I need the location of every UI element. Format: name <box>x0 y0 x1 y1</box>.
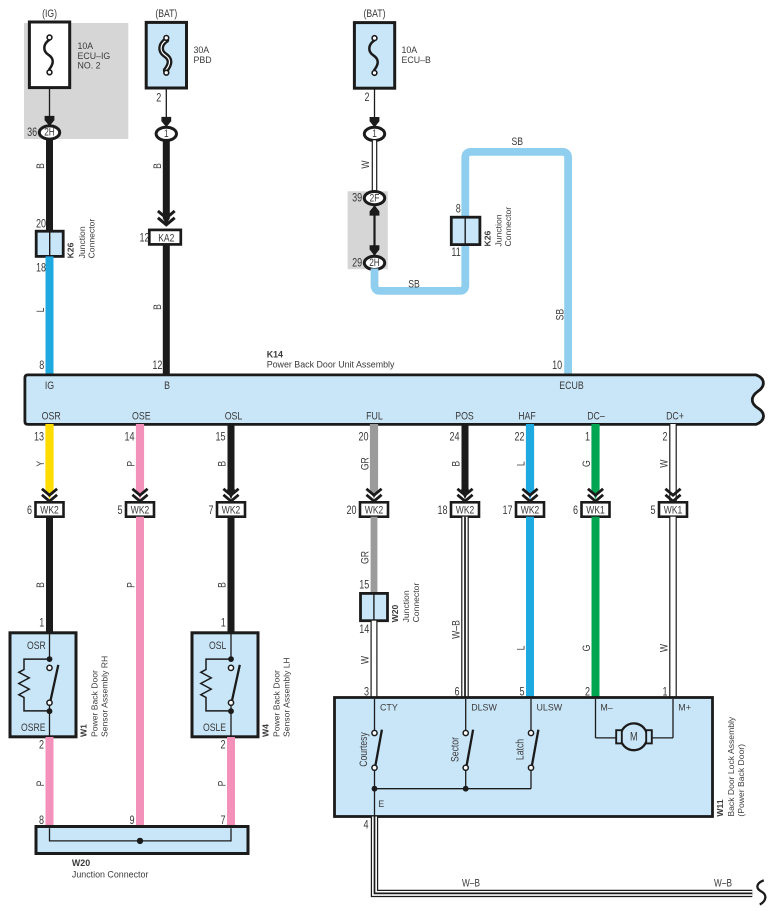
svg-text:W: W <box>659 459 671 468</box>
arrows into WK2 <box>132 489 147 501</box>
wire P <box>136 424 144 490</box>
svg-text:L: L <box>516 461 528 466</box>
svg-text:36: 36 <box>27 127 37 139</box>
svg-text:B: B <box>217 582 229 588</box>
svg-text:W: W <box>360 160 372 169</box>
svg-text:Junction Connector: Junction Connector <box>72 869 149 879</box>
connector WK2 <box>451 502 479 517</box>
label K14 <box>267 349 395 369</box>
svg-text:G: G <box>581 645 593 652</box>
svg-text:W–B: W–B <box>714 878 732 890</box>
svg-text:29: 29 <box>352 257 362 269</box>
svg-text:Connector: Connector <box>87 219 97 259</box>
connector KA2 <box>149 230 181 245</box>
svg-text:NO. 2: NO. 2 <box>78 61 101 71</box>
svg-text:22: 22 <box>514 431 524 443</box>
svg-text:Connector: Connector <box>503 207 513 247</box>
connector WK2 <box>36 502 64 517</box>
svg-text:P: P <box>217 780 229 786</box>
wire L (K26 to K14 IG) <box>46 256 54 374</box>
svg-text:B: B <box>152 304 164 310</box>
connector WK2 <box>516 502 544 517</box>
svg-text:DLSW: DLSW <box>471 702 497 712</box>
svg-text:WK2: WK2 <box>40 505 58 517</box>
svg-text:KA2: KA2 <box>158 233 174 245</box>
label W11 Back Door Lock Assembly <box>715 716 746 817</box>
svg-text:B: B <box>35 582 47 588</box>
svg-text:1: 1 <box>164 128 169 140</box>
svg-text:8: 8 <box>456 203 461 215</box>
arrows into WK1 <box>665 489 680 501</box>
fuse 10A ECU-IG NO. 2 <box>29 22 69 88</box>
svg-text:(IG): (IG) <box>42 8 57 20</box>
svg-text:Junction: Junction <box>494 214 504 246</box>
svg-text:P: P <box>126 460 138 466</box>
svg-text:G: G <box>581 460 593 467</box>
svg-text:12: 12 <box>139 233 149 245</box>
svg-text:ECU–IG: ECU–IG <box>78 51 111 61</box>
svg-text:DC–: DC– <box>587 410 605 422</box>
svg-text:W1: W1 <box>78 724 88 737</box>
svg-text:5: 5 <box>117 505 122 517</box>
svg-text:1: 1 <box>372 128 377 140</box>
wire W (WK1 col) <box>669 424 677 502</box>
svg-text:K14: K14 <box>267 349 283 359</box>
svg-text:FUL: FUL <box>366 410 383 422</box>
connector WK1 <box>659 502 687 517</box>
svg-text:18: 18 <box>437 505 447 517</box>
arrows into WK2 <box>42 489 57 501</box>
svg-text:OSE: OSE <box>132 410 151 422</box>
label K26 Junction Connector <box>66 219 97 259</box>
svg-text:ECU–B: ECU–B <box>402 55 431 65</box>
wire Y <box>45 424 53 490</box>
junction connector K26 (2) <box>451 217 480 244</box>
svg-text:6: 6 <box>27 505 32 517</box>
ground bus wire in W11 <box>372 786 531 817</box>
label K26 Junction Connector <box>482 207 513 247</box>
connector 2H <box>364 256 384 269</box>
svg-text:(BAT): (BAT) <box>364 8 386 20</box>
shaded block (IG) fuse area <box>24 23 128 139</box>
svg-text:Courtesy: Courtesy <box>358 732 370 767</box>
svg-text:(BAT): (BAT) <box>155 8 177 20</box>
break mark (continuation squiggle) <box>757 880 765 904</box>
wire fuse to connector 2H <box>49 88 51 118</box>
svg-text:K26: K26 <box>66 242 76 258</box>
svg-text:15: 15 <box>215 431 225 443</box>
arrows into WK2 <box>522 489 537 501</box>
svg-text:OSRE: OSRE <box>21 722 46 734</box>
motor M <box>596 699 674 750</box>
svg-text:ULSW: ULSW <box>537 702 563 712</box>
wire G (WK1 to W11 M-) <box>592 517 600 698</box>
wire B (WK2 to W4) <box>228 517 235 634</box>
svg-text:W: W <box>659 643 671 652</box>
svg-text:Power Back Door: Power Back Door <box>90 670 100 737</box>
svg-text:8: 8 <box>39 360 44 372</box>
svg-text:WK2: WK2 <box>131 505 149 517</box>
ECU W11 Back Door Lock Assembly <box>335 698 713 817</box>
svg-text:W: W <box>360 655 372 664</box>
fuse value label <box>402 45 431 65</box>
arrows into WK1 <box>588 489 603 501</box>
fuse 10A ECU-B <box>354 23 394 89</box>
svg-text:(Power Back Door): (Power Back Door) <box>736 744 746 817</box>
svg-text:1: 1 <box>221 618 226 630</box>
svg-text:Y: Y <box>35 460 47 466</box>
svg-text:2: 2 <box>364 92 369 104</box>
svg-text:W4: W4 <box>260 724 270 737</box>
label W4 Power Back Door Sensor Assembly LH <box>260 657 291 737</box>
svg-text:20: 20 <box>36 219 46 231</box>
svg-text:20: 20 <box>358 431 368 443</box>
arrow into 2H <box>45 116 55 126</box>
svg-text:M+: M+ <box>678 702 691 712</box>
wire P (WK2 to W20) <box>136 517 144 828</box>
wire P (W4 to W20) <box>227 737 235 827</box>
svg-text:L: L <box>516 645 528 650</box>
svg-text:IG: IG <box>45 380 54 392</box>
wire B <box>462 424 469 490</box>
arrows into WK2 <box>457 489 472 501</box>
wire L (WK2 to W11 ULSW) <box>526 517 534 698</box>
svg-text:SB: SB <box>555 309 567 321</box>
connector WK2 <box>360 502 388 517</box>
svg-text:Sensor Assembly LH: Sensor Assembly LH <box>281 657 291 737</box>
svg-text:M: M <box>630 731 638 744</box>
svg-text:P: P <box>35 780 47 786</box>
svg-text:B: B <box>164 380 170 392</box>
svg-text:2F: 2F <box>370 192 380 204</box>
svg-text:2: 2 <box>156 92 161 104</box>
svg-text:10A: 10A <box>78 41 94 51</box>
svg-text:30A: 30A <box>194 45 210 55</box>
svg-text:OSR: OSR <box>27 640 46 652</box>
wire W (WK1 to W11 M+) <box>669 517 677 698</box>
svg-text:1: 1 <box>39 618 44 630</box>
arrows into WK2 <box>223 489 238 501</box>
sensor W4 (OSL switch + resistor) <box>192 633 258 737</box>
wire B (KA2 to K14 B) <box>163 244 170 374</box>
svg-text:POS: POS <box>455 410 474 422</box>
svg-text:7: 7 <box>208 505 213 517</box>
svg-text:Latch: Latch <box>515 739 527 760</box>
svg-text:GR: GR <box>360 551 372 564</box>
switch Sector (DLSW) <box>449 699 497 789</box>
svg-text:HAF: HAF <box>518 410 536 422</box>
connector WK1 <box>582 502 610 517</box>
wire L <box>526 424 534 490</box>
svg-text:24: 24 <box>449 431 459 443</box>
wire W-B (W11 E to ground, off-page) <box>375 817 753 894</box>
fuse value label <box>78 41 111 70</box>
svg-text:W–B: W–B <box>462 878 480 890</box>
svg-text:17: 17 <box>502 505 512 517</box>
junction connector K26 <box>36 231 63 256</box>
svg-text:W20: W20 <box>72 858 90 868</box>
junction connector W20 <box>36 827 248 854</box>
svg-text:B: B <box>35 163 47 169</box>
svg-text:20: 20 <box>346 505 356 517</box>
svg-text:1: 1 <box>585 431 590 443</box>
ECU K14 Power Back Door Unit Assembly <box>25 375 764 425</box>
svg-text:12: 12 <box>152 360 162 372</box>
arrow into 1 <box>161 117 171 127</box>
label W20 Junction Connector <box>72 858 149 879</box>
wire GR <box>370 424 378 490</box>
svg-text:OSR: OSR <box>42 410 61 422</box>
svg-text:39: 39 <box>352 193 362 205</box>
arrows into WK2 <box>366 489 381 501</box>
svg-text:PBD: PBD <box>194 55 212 65</box>
svg-text:18: 18 <box>36 263 46 275</box>
svg-text:2: 2 <box>662 431 667 443</box>
svg-text:6: 6 <box>573 505 578 517</box>
svg-text:Power Back Door: Power Back Door <box>272 670 282 737</box>
svg-text:WK2: WK2 <box>521 505 539 517</box>
connector WK2 <box>126 502 154 517</box>
svg-text:W–B: W–B <box>451 620 463 639</box>
connector 2F <box>364 192 384 205</box>
svg-text:OSL: OSL <box>209 640 227 652</box>
shaded block 2F-2H <box>348 191 388 269</box>
sensor W1 (OSR switch + resistor) <box>10 633 76 737</box>
switch Latch (ULSW) <box>515 699 563 789</box>
connector WK2 <box>217 502 245 517</box>
svg-text:CTY: CTY <box>380 702 398 712</box>
svg-text:15: 15 <box>359 580 369 592</box>
svg-text:2: 2 <box>220 740 225 752</box>
wire B (ECU-IG to K26) <box>46 139 53 232</box>
svg-text:Junction: Junction <box>77 226 87 258</box>
label W20 Junction Connector <box>390 583 421 623</box>
wire fuse to connector 1 <box>165 88 167 119</box>
fuse value label <box>194 45 212 65</box>
svg-text:P: P <box>126 582 138 588</box>
svg-text:10: 10 <box>552 360 562 372</box>
wire GR (WK2 to W20) <box>371 517 378 594</box>
svg-text:14: 14 <box>359 624 369 636</box>
wire W (W20 to W11 CTY) <box>371 621 378 698</box>
svg-text:Sensor Assembly RH: Sensor Assembly RH <box>99 656 109 737</box>
svg-text:W11: W11 <box>715 799 725 816</box>
svg-text:5: 5 <box>650 505 655 517</box>
junction connector W20 (FUL) <box>361 593 388 620</box>
wire W-B (WK2 to W11 DLSW) <box>461 517 469 698</box>
svg-text:B: B <box>152 163 164 169</box>
svg-text:B: B <box>217 460 229 466</box>
svg-text:GR: GR <box>360 457 372 470</box>
svg-text:K26: K26 <box>482 231 492 247</box>
connector 1 (PBD) <box>156 127 176 140</box>
svg-text:11: 11 <box>451 247 461 259</box>
svg-text:SB: SB <box>408 279 420 291</box>
svg-text:14: 14 <box>124 431 134 443</box>
svg-text:OSL: OSL <box>225 410 243 422</box>
svg-text:B: B <box>451 460 463 466</box>
svg-text:2H: 2H <box>44 127 55 139</box>
svg-text:Connector: Connector <box>411 583 421 623</box>
svg-text:OSLE: OSLE <box>203 722 226 734</box>
switch Courtesy (CTY) <box>358 699 398 789</box>
svg-text:10A: 10A <box>402 45 418 55</box>
svg-text:Back Door Lock Assembly: Back Door Lock Assembly <box>726 716 736 817</box>
svg-text:WK2: WK2 <box>456 505 474 517</box>
wire B <box>228 424 235 490</box>
wire G <box>591 424 599 490</box>
connector 1 (ECU-B) <box>364 127 384 140</box>
svg-text:Power Back Door Unit Assembly: Power Back Door Unit Assembly <box>267 359 395 369</box>
arrow into 1 <box>370 117 380 127</box>
svg-text:Junction: Junction <box>401 590 411 622</box>
svg-text:W20: W20 <box>390 605 400 623</box>
svg-text:E: E <box>378 799 384 809</box>
fusible link 30A PBD <box>146 22 186 88</box>
wire B (PBD to KA2) <box>163 140 170 218</box>
svg-text:2H: 2H <box>369 257 380 269</box>
svg-text:WK1: WK1 <box>586 505 604 517</box>
svg-text:L: L <box>35 307 47 312</box>
svg-text:Sector: Sector <box>449 736 461 762</box>
connector 2H <box>39 126 59 139</box>
svg-text:2: 2 <box>39 740 44 752</box>
label W1 Power Back Door Sensor Assembly RH <box>78 656 109 737</box>
svg-text:13: 13 <box>34 431 44 443</box>
arrow between 2F and 2H <box>370 205 380 256</box>
svg-text:WK2: WK2 <box>365 505 383 517</box>
svg-text:SB: SB <box>512 136 524 148</box>
arrows into KA2 <box>158 211 175 225</box>
svg-text:DC+: DC+ <box>666 410 684 422</box>
svg-text:WK1: WK1 <box>664 505 682 517</box>
svg-text:M–: M– <box>600 702 612 712</box>
wire SB (2H to K26 to K14 ECUB) <box>375 152 569 374</box>
svg-text:WK2: WK2 <box>222 505 240 517</box>
wire fuse to connector 1 <box>374 88 376 118</box>
wire W (to 2F) <box>372 140 378 192</box>
svg-text:4: 4 <box>363 820 368 832</box>
wire B (WK2 to W1) <box>46 517 53 634</box>
wire P (W1 to W20) <box>46 737 54 827</box>
svg-text:ECUB: ECUB <box>559 380 584 392</box>
